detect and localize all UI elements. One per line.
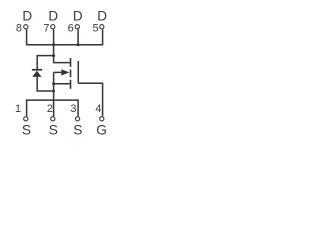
svg-text:1: 1 (15, 103, 21, 115)
junction dot source lead (52, 82, 55, 85)
wire: pin7 stem down to diode junction (53, 29, 55, 55)
wire: pin6 stem (77, 29, 79, 44)
svg-text:D: D (48, 8, 58, 23)
svg-text:3: 3 (70, 103, 76, 115)
terminal pin 6 (75, 25, 79, 29)
svg-text:S: S (49, 123, 58, 138)
junction dot bus-pin6 (77, 43, 80, 46)
terminal pin 7 (51, 25, 55, 29)
wire: gate lead right and pin4 stem (78, 83, 102, 116)
terminal pin 3 (76, 117, 80, 121)
wire: body/arrow lead (54, 71, 62, 73)
transistor Q1 channel bar bottom (source contact) (70, 80, 72, 89)
terminal pin 8 (24, 25, 28, 29)
svg-text:D: D (97, 8, 107, 23)
wire: source column from body lead down to pin 2 (53, 72, 55, 116)
transistor Q1 body arrow (61, 69, 69, 75)
junction dot diode top (52, 54, 55, 57)
svg-text:5: 5 (93, 22, 99, 34)
terminal pin 1 (24, 117, 28, 121)
svg-text:6: 6 (68, 22, 74, 34)
terminal pin 4 (100, 117, 104, 121)
junction dot diode anode (52, 90, 55, 93)
svg-text:S: S (22, 123, 31, 138)
svg-text:4: 4 (95, 103, 101, 115)
svg-text:G: G (96, 123, 107, 138)
transistor Q1 channel bar top (drain contact) (70, 58, 72, 67)
svg-text:S: S (73, 123, 82, 138)
svg-text:2: 2 (47, 103, 53, 115)
wire: branch to diode cathode, diode top vertical (37, 56, 53, 69)
wire: gate vertical line (77, 61, 79, 83)
wire: drain jog to MOSFET top bar (54, 56, 70, 63)
diode D1 cathode bar (32, 69, 42, 71)
wire: diode anode vertical and branch right to source column (37, 77, 53, 91)
svg-text:8: 8 (16, 22, 22, 34)
svg-text:D: D (73, 8, 83, 23)
diode D1 anode triangle (32, 71, 41, 77)
svg-text:7: 7 (43, 22, 49, 34)
junction dot bus-pin7 (52, 43, 55, 46)
transistor Q1 channel bar middle (body contact) (70, 70, 72, 78)
terminal pin 5 (100, 25, 104, 29)
svg-text:D: D (22, 8, 32, 23)
wire: source lead to MOSFET bottom bar (54, 83, 70, 85)
wire: bottom source bus with pin1 and pin3 stems (27, 100, 79, 116)
terminal pin 2 (51, 117, 55, 121)
wire: pin8 stem, top drain bus, pin5 stem (27, 29, 103, 45)
